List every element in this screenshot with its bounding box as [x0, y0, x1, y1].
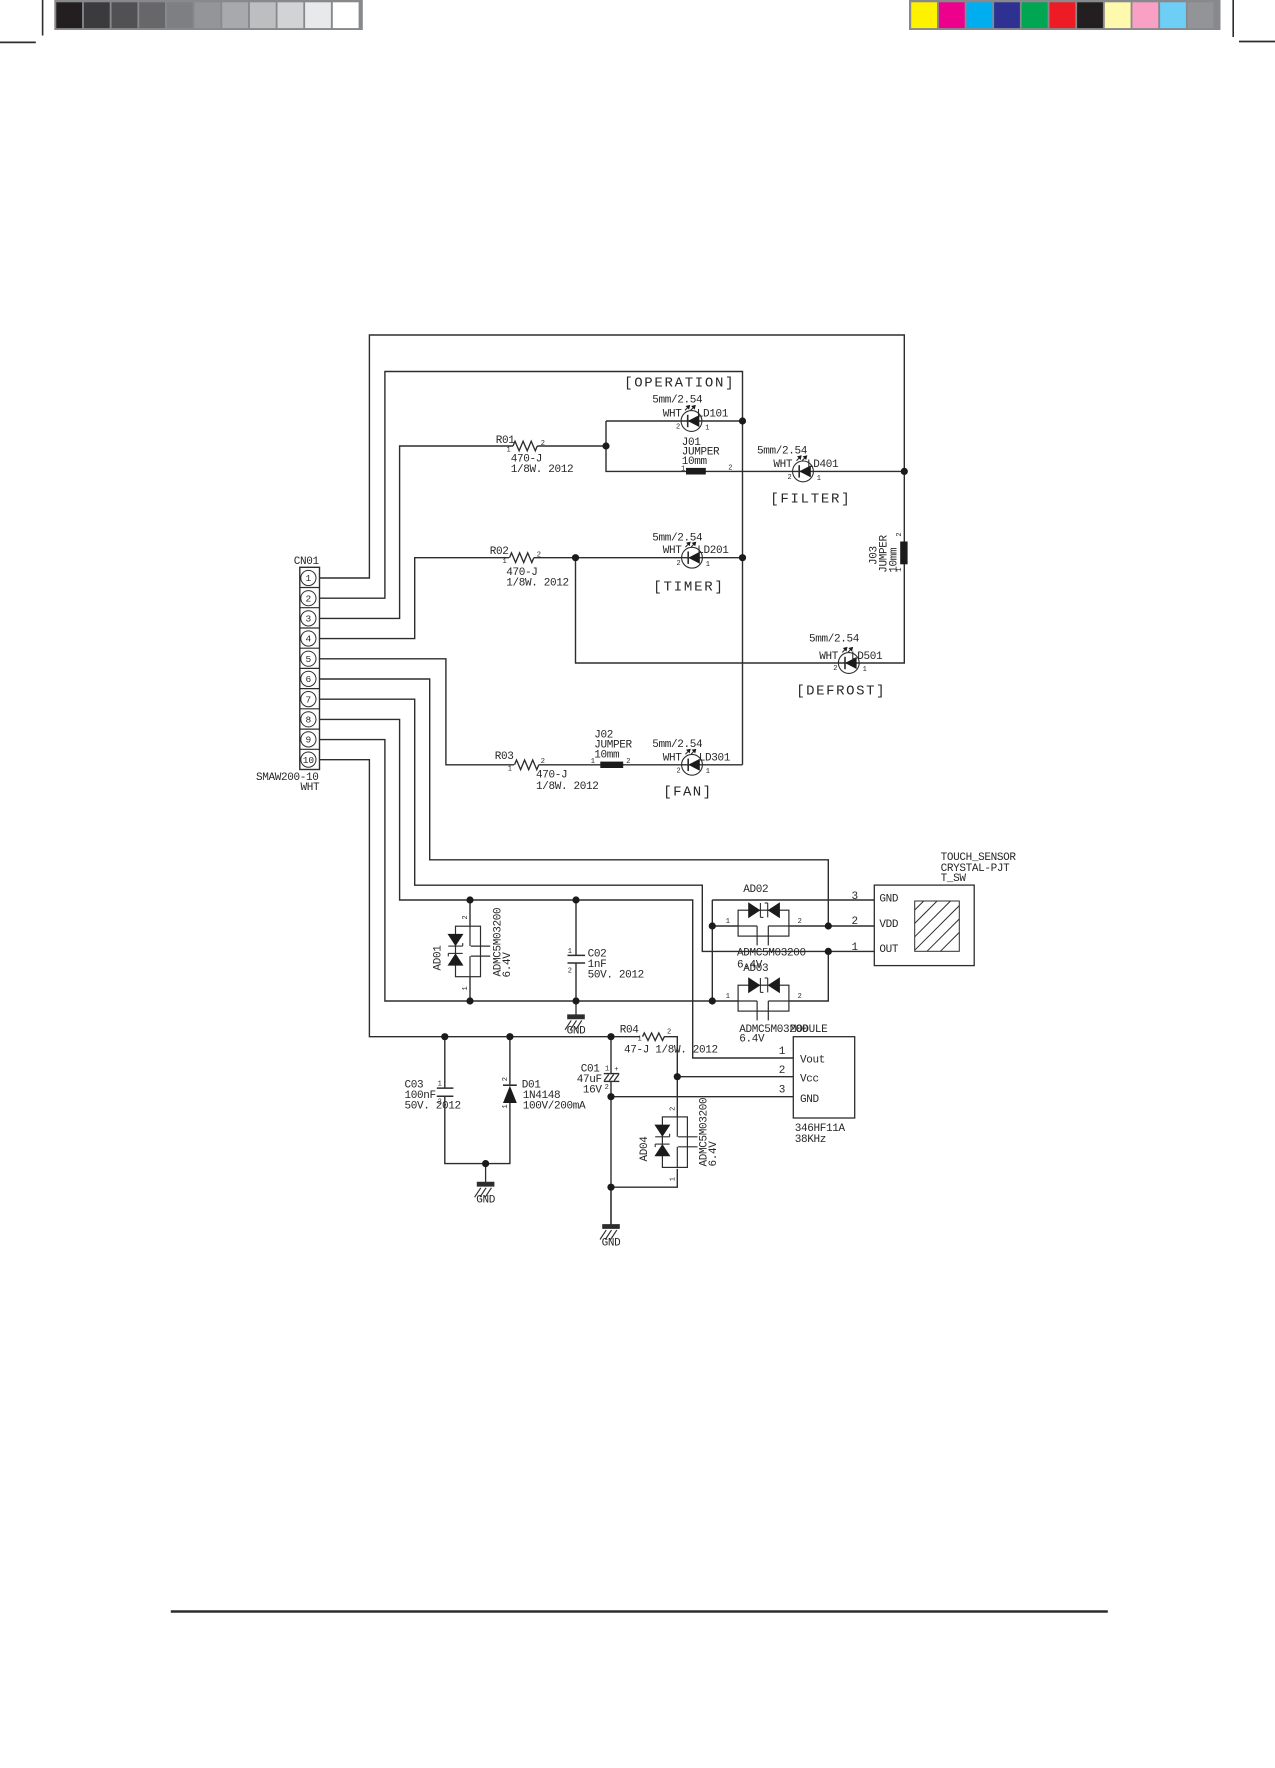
- svg-text:CN01: CN01: [294, 556, 320, 568]
- svg-text:6.4V: 6.4V: [708, 1141, 720, 1167]
- svg-text:R04: R04: [620, 1024, 640, 1036]
- node AD02 pin1: [709, 922, 716, 929]
- svg-text:1: 1: [591, 758, 595, 766]
- svg-text:47-J 1/8W. 2012: 47-J 1/8W. 2012: [624, 1044, 718, 1056]
- svg-text:1/8W. 2012: 1/8W. 2012: [511, 464, 574, 476]
- node R01-J01: [602, 442, 609, 449]
- svg-text:6.4V: 6.4V: [739, 1034, 765, 1046]
- wire Vcc row to module: [677, 1076, 793, 1078]
- svg-text:1: 1: [638, 1036, 642, 1044]
- svg-text:5mm/2.54: 5mm/2.54: [809, 634, 860, 646]
- svg-text:8: 8: [306, 715, 312, 726]
- node R02 defrost branch: [572, 554, 579, 561]
- wire net pin10 supply row to R04: [320, 760, 641, 1037]
- svg-text:1: 1: [438, 1080, 442, 1088]
- svg-text:2: 2: [502, 1077, 510, 1081]
- node C02 bottom: [572, 997, 579, 1004]
- wire R03 through J02 and LD301 to rail: [539, 764, 743, 766]
- svg-text:1: 1: [726, 918, 730, 926]
- svg-text:2: 2: [568, 967, 572, 975]
- resistor R03 zigzag: [515, 760, 539, 770]
- svg-text:GND: GND: [476, 1195, 496, 1207]
- capacitor C03 100nF: [444, 1037, 446, 1088]
- svg-text:GND: GND: [879, 894, 899, 906]
- svg-text:16V: 16V: [583, 1084, 603, 1096]
- svg-text:[OPERATION]: [OPERATION]: [624, 375, 733, 391]
- svg-text:R02: R02: [490, 546, 509, 558]
- wire net pin5 to R03: [320, 659, 515, 765]
- LED LD301: [682, 754, 703, 775]
- node AD03 pin1: [709, 997, 716, 1004]
- svg-text:6: 6: [306, 674, 312, 685]
- varistor-filter AD02 ADMC5M03200: [738, 910, 789, 936]
- svg-text:3: 3: [306, 614, 312, 625]
- svg-text:1: 1: [669, 1177, 677, 1181]
- svg-text:1: 1: [896, 568, 904, 572]
- svg-text:2: 2: [852, 916, 858, 928]
- svg-text:1: 1: [681, 465, 685, 473]
- top left crop tick horizontal: [0, 41, 36, 43]
- svg-text:50V. 2012: 50V. 2012: [405, 1101, 461, 1113]
- svg-text:2: 2: [541, 440, 545, 448]
- node C03 top: [441, 1033, 448, 1040]
- svg-text:R01: R01: [496, 435, 516, 447]
- node Vcc at AD04: [674, 1073, 681, 1080]
- svg-text:10mm: 10mm: [682, 456, 708, 468]
- svg-text:LD201: LD201: [697, 545, 729, 557]
- svg-text:1: 1: [462, 986, 470, 990]
- svg-text:1: 1: [705, 424, 709, 432]
- svg-text:GND: GND: [567, 1026, 587, 1038]
- svg-text:5mm/2.54: 5mm/2.54: [757, 445, 808, 457]
- svg-text:2: 2: [677, 560, 681, 568]
- svg-text:100V/200mA: 100V/200mA: [523, 1101, 586, 1113]
- capacitor C01 47uF polarized: [610, 1037, 612, 1074]
- svg-text:1: 1: [726, 993, 730, 1001]
- wire net pin3 to R01: [320, 446, 514, 618]
- node AD01 top: [466, 896, 473, 903]
- resistor R04 zigzag: [643, 1033, 665, 1041]
- wire J01 jumper row through LD401: [606, 421, 904, 471]
- svg-text:10mm: 10mm: [594, 749, 620, 761]
- node OUT at touch sensor: [825, 948, 832, 955]
- svg-text:2: 2: [676, 424, 680, 432]
- wire net pin8 to module Vout: [320, 719, 794, 1058]
- svg-text:9: 9: [306, 735, 312, 746]
- node LD401 right rail: [901, 468, 908, 475]
- svg-text:2: 2: [728, 464, 732, 472]
- svg-text:2: 2: [438, 1099, 442, 1107]
- wire R04 to AD04 via Vcc node: [664, 1037, 677, 1117]
- wire VDD row right of AD02 to touch sensor: [789, 925, 874, 927]
- wire R02 through LD201 to rail: [534, 557, 743, 559]
- connector CN01 10-pin header SMAW200-10: [300, 567, 320, 769]
- svg-text:VDD: VDD: [879, 919, 899, 931]
- svg-text:1: 1: [863, 666, 867, 674]
- module box 346HF11A: [793, 1037, 854, 1118]
- node C01 top: [607, 1033, 614, 1040]
- node C02 top: [572, 896, 579, 903]
- svg-text:WHT: WHT: [301, 782, 321, 794]
- svg-text:50V. 2012: 50V. 2012: [588, 970, 644, 982]
- svg-text:AD04: AD04: [639, 1136, 651, 1162]
- svg-text:1: 1: [508, 765, 512, 773]
- svg-text:AD03: AD03: [743, 963, 768, 975]
- node LD201 cathode rail: [739, 554, 746, 561]
- svg-text:LD401: LD401: [807, 459, 839, 471]
- varistor-filter AD03 ADMC5M03200: [738, 985, 789, 1011]
- wire net pin6 to VDD rail: [320, 679, 829, 926]
- svg-text:2: 2: [788, 474, 792, 482]
- svg-text:MODULE: MODULE: [790, 1024, 828, 1036]
- node VDD at touch sensor: [825, 922, 832, 929]
- node C03-D01 ground: [482, 1160, 489, 1167]
- wire net pin9 ground row: [320, 740, 739, 1001]
- svg-text:2: 2: [626, 758, 630, 766]
- svg-text:2: 2: [896, 533, 904, 537]
- jumper J02 body: [600, 762, 623, 768]
- wire net pin1 to top rail and right rail down to defrost row: [320, 335, 905, 663]
- svg-text:10: 10: [303, 755, 315, 766]
- svg-text:AD02: AD02: [743, 884, 768, 896]
- svg-text:1: 1: [817, 475, 821, 483]
- node AD01 bottom: [466, 997, 473, 1004]
- node LD101 cathode rail: [739, 417, 746, 424]
- svg-text:470-J: 470-J: [536, 770, 567, 782]
- svg-text:WHT: WHT: [819, 651, 839, 663]
- svg-text:3: 3: [852, 891, 858, 903]
- wire LD101 anode row: [606, 420, 743, 422]
- svg-text:+: +: [614, 1066, 618, 1074]
- varistor-filter AD04 ADMC5M03200: [662, 1117, 687, 1168]
- ground at C02: [575, 1001, 577, 1017]
- svg-text:2: 2: [667, 1029, 671, 1037]
- svg-text:2: 2: [306, 593, 312, 604]
- svg-text:Vcc: Vcc: [800, 1074, 819, 1086]
- svg-text:WHT: WHT: [663, 409, 683, 421]
- svg-text:2: 2: [605, 1084, 609, 1092]
- wire R01 to node J01: [537, 445, 606, 447]
- resistor R01 zigzag: [513, 441, 537, 451]
- ground at C03 and D01: [485, 1164, 487, 1185]
- svg-text:1: 1: [503, 558, 507, 566]
- top right crop tick vertical: [1232, 0, 1234, 37]
- svg-text:GND: GND: [602, 1238, 622, 1250]
- wire net pin2 to LED cathode rail: [320, 372, 743, 765]
- color calibration bar: [909, 0, 1221, 30]
- svg-text:T_SW: T_SW: [941, 873, 967, 885]
- node GND row at C01: [607, 1093, 614, 1100]
- varistor-filter AD01 ADMC5M03200: [456, 926, 481, 977]
- svg-text:5mm/2.54: 5mm/2.54: [652, 395, 703, 407]
- touch sensor T_SW box: [874, 885, 974, 966]
- svg-text:1: 1: [779, 1046, 786, 1058]
- svg-text:2: 2: [798, 993, 802, 1001]
- grayscale calibration bar: [54, 0, 363, 30]
- svg-text:WHT: WHT: [663, 545, 683, 557]
- jumper J03 body: [900, 542, 907, 565]
- svg-text:R03: R03: [495, 751, 514, 763]
- svg-text:5: 5: [306, 654, 312, 665]
- svg-text:1: 1: [852, 942, 859, 954]
- diode D01 1N4148: [509, 1037, 511, 1086]
- svg-text:2: 2: [462, 915, 470, 919]
- svg-text:LD101: LD101: [697, 409, 729, 421]
- LED LD401: [793, 461, 814, 482]
- svg-text:LD301: LD301: [699, 752, 731, 764]
- svg-text:38KHz: 38KHz: [795, 1134, 826, 1146]
- wire net pin7 to OUT row: [320, 699, 875, 951]
- svg-text:AD01: AD01: [432, 945, 444, 971]
- svg-text:7: 7: [306, 694, 312, 705]
- wire AD04 bottom to ground column: [611, 1169, 677, 1187]
- svg-text:GND: GND: [800, 1094, 820, 1106]
- wire AD03 pin2 to OUT junction: [789, 951, 828, 1001]
- node D01 top: [506, 1033, 513, 1040]
- svg-text:[DEFROST]: [DEFROST]: [796, 683, 884, 699]
- svg-text:1: 1: [306, 573, 312, 584]
- svg-text:2: 2: [798, 918, 802, 926]
- svg-text:1/8W. 2012: 1/8W. 2012: [506, 578, 569, 590]
- wire GND vertical to pin9 row: [711, 900, 713, 1001]
- svg-text:5mm/2.54: 5mm/2.54: [652, 739, 703, 751]
- svg-text:1/8W. 2012: 1/8W. 2012: [536, 781, 599, 793]
- svg-text:WHT: WHT: [773, 459, 793, 471]
- svg-text:[TIMER]: [TIMER]: [653, 579, 723, 595]
- svg-text:[FAN]: [FAN]: [663, 784, 711, 800]
- wire AD01 top stub: [469, 900, 471, 926]
- svg-text:2: 2: [677, 767, 681, 775]
- svg-text:Vout: Vout: [800, 1054, 825, 1066]
- wire AD01 bottom stub: [469, 977, 471, 1001]
- svg-text:2: 2: [833, 665, 837, 673]
- LED LD201: [682, 547, 703, 568]
- svg-text:1: 1: [706, 768, 710, 776]
- svg-text:1: 1: [568, 948, 572, 956]
- capacitor C02 1nF: [575, 900, 577, 955]
- svg-text:OUT: OUT: [879, 944, 899, 956]
- svg-text:1: 1: [605, 1066, 609, 1074]
- resistor R02 zigzag: [510, 553, 534, 563]
- svg-text:4: 4: [306, 634, 312, 645]
- svg-text:2: 2: [669, 1107, 677, 1111]
- svg-text:[FILTER]: [FILTER]: [770, 492, 849, 508]
- svg-text:WHT: WHT: [663, 752, 683, 764]
- top right crop tick horizontal: [1239, 41, 1275, 43]
- bottom horizontal rule: [171, 1610, 1108, 1612]
- wire GND row to module: [611, 1096, 793, 1098]
- LED LD501: [838, 653, 859, 674]
- svg-text:2: 2: [537, 552, 541, 560]
- jumper J01 body: [686, 468, 706, 475]
- svg-text:2: 2: [541, 758, 545, 766]
- svg-text:ADMC5M03200: ADMC5M03200: [737, 948, 806, 960]
- svg-text:3: 3: [779, 1085, 785, 1097]
- ground at C01: [610, 1187, 612, 1226]
- svg-text:5mm/2.54: 5mm/2.54: [652, 533, 703, 545]
- wire VDD row left of AD02: [712, 925, 738, 927]
- svg-text:LD501: LD501: [851, 651, 883, 663]
- svg-text:6.4V: 6.4V: [502, 952, 514, 978]
- svg-text:2: 2: [779, 1065, 785, 1077]
- svg-text:1: 1: [507, 447, 511, 455]
- wire net pin4 to R02: [320, 558, 510, 639]
- svg-text:1: 1: [706, 561, 710, 569]
- LED LD101: [681, 411, 702, 432]
- node C01 ground: [607, 1184, 614, 1191]
- wire GND row to touch sensor: [712, 899, 874, 901]
- top left crop tick vertical: [42, 0, 44, 36]
- svg-text:1: 1: [502, 1104, 510, 1108]
